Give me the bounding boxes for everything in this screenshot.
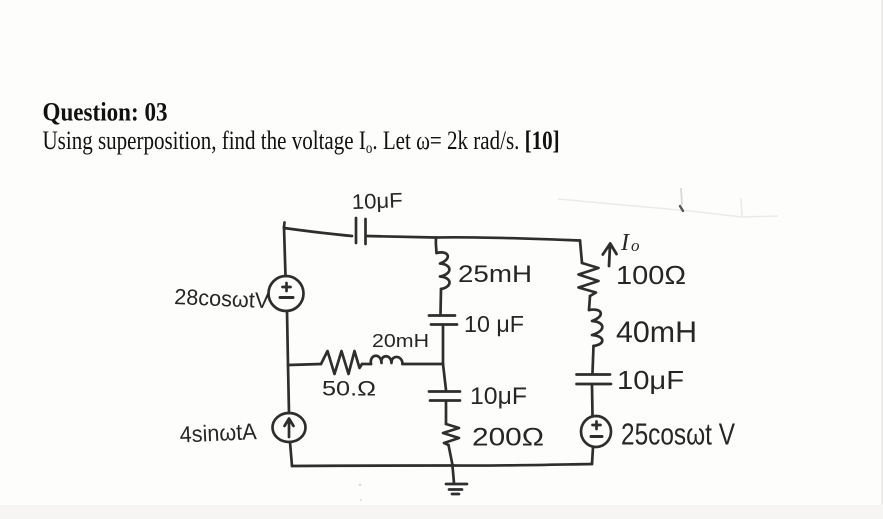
capacitor C-mid 10uF plate top [429,314,455,317]
wire middle short [362,363,371,366]
svg-text:50.Ω: 50.Ω [322,378,376,401]
source V2 minus [591,435,602,438]
svg-text:25mH: 25mH [458,261,532,288]
svg-text:40mH: 40mH [616,316,697,349]
wire top-middle [366,236,436,238]
paper crease (faint) [558,199,778,217]
svg-text:200Ω: 200Ω [472,424,544,452]
resistor R-50 zigzag [321,351,362,374]
wire middle-right segment [403,363,444,366]
crease vertical faint [741,198,742,216]
source I1 arrow [285,419,294,438]
wire drop from top junction [435,238,438,253]
inductor L-20mH bumps [371,356,403,364]
wire 40mH to cap [593,346,594,373]
ground bar 3 [452,493,459,496]
capacitor C-right 10uF plate bottom [577,383,612,386]
svg-text:25cosωt V: 25cosωt V [621,417,735,452]
capacitor C-top 10uF plate left [355,218,358,243]
wire to 200 ohm [445,401,448,424]
wire cap to source [591,385,594,416]
faint specks [359,484,361,486]
capacitor C-right 10uF plate top [577,373,611,376]
wire to cap [439,289,442,314]
svg-text:10 μF: 10 μF [464,311,524,337]
svg-text:100Ω: 100Ω [616,260,686,290]
capacitor C-low 10uF plate bottom [430,399,460,402]
ground bar 2 [449,488,462,491]
wire top-left horizontal [284,228,352,236]
stray pen mark [681,188,682,205]
bottom scan strip [0,505,883,519]
source V1 28coswtV circle [269,276,304,311]
wire left vertical upper [284,227,286,276]
svg-text:20mH: 20mH [372,331,429,351]
corner tick top-left [283,223,286,228]
source V1 plus [283,283,291,291]
wire 100ohm to 40mH [589,296,590,310]
svg-text:Question: 03: Question: 03 [43,98,168,127]
resistor R-100 zigzag [579,263,599,296]
capacitor C-low 10uF plate top [429,390,460,393]
right scan edge [881,0,883,519]
ground stem [453,466,455,483]
source I1 4sinwtA circle [273,413,306,442]
wire bottom [292,464,592,466]
wire left vertical bottom [290,442,292,466]
svg-text:10μF: 10μF [470,383,527,410]
wire left vertical lower [288,365,289,413]
inductor L-40mH coil [589,310,602,346]
header title [43,98,168,127]
Io arrow [603,244,617,267]
header question line [43,127,560,157]
wire 200 ohm to bottom [449,445,453,465]
wire middle-left segment [289,364,321,365]
capacitor C-mid 10uF plate bottom [431,323,457,326]
inductor L-25mH coil [437,252,450,289]
svg-text:10μF: 10μF [351,189,403,214]
wire right vertical top [580,241,582,264]
wire cap to middle junction [442,325,445,364]
source V2 plus [593,422,601,430]
ground bar 1 [446,483,467,486]
capacitor C-top 10uF plate right [364,219,367,244]
source V1 minus [280,296,293,299]
svg-text:4sinωtA: 4sinωtA [179,418,258,447]
svg-text:10μF: 10μF [617,365,684,395]
svg-text:28cosωtV: 28cosωtV [174,284,270,313]
source V2 25coswtV circle [581,416,611,447]
svg-text:Using superposition, find the: Using superposition, find the voltage Io… [43,127,560,157]
wire source to bottom [592,447,593,464]
wire top-right [436,237,580,240]
wire left vertical middle [287,311,288,365]
wire middle junction down [443,364,446,390]
resistor R-200 zigzag [443,424,459,445]
